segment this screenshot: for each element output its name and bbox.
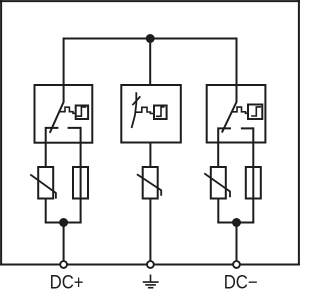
varistor left branch [38,167,53,199]
wire: DC+ branch drop from top bus into left box [63,39,65,103]
varistor middle branch [143,167,158,199]
terminal DC+ [60,261,67,268]
wire: middle box to varistor [149,142,151,167]
junction dot left branch [59,218,68,227]
varistor stroke middle branch [137,174,161,196]
disconnect tick middle [132,96,140,105]
wire: left box right terminal through fuse to junction [80,127,82,223]
switch blade right [222,102,237,133]
ground symbol [143,275,159,288]
switch blade left [50,102,64,133]
signal link stepped line right [232,107,248,113]
remote signalling contact square middle [154,106,167,120]
remote signalling contact square right [248,105,262,120]
wire: middle varistor to earth terminal [149,199,151,262]
frame right border [298,0,300,266]
svg-text:DC+: DC+ [50,272,84,293]
svg-text:DC−: DC− [224,272,258,293]
fuse right branch [246,167,261,199]
switch seat bracket left box [46,128,81,167]
wire: right box right terminal through fuse to junction [252,127,254,222]
disconnector box right [207,85,266,143]
bottom terminal bus wire [0,264,300,266]
wire: below left varistor [45,199,47,223]
top bus wire [64,38,237,39]
junction dot right branch [232,218,241,227]
switch seat bracket right box [218,128,253,166]
wire: right branch to DC- terminal [236,223,238,262]
junction bar right branch [217,222,254,224]
varistor stroke left branch [30,175,56,199]
frame top border [0,0,300,2]
fuse left branch [73,167,88,199]
wire: DC- branch drop from top bus into right box [236,39,238,103]
step symbol inside square left [77,107,87,116]
junction dot top [146,34,155,43]
varistor right branch [211,167,226,199]
frame left border [0,0,2,266]
disconnector box left [35,85,93,143]
step symbol inside square right [251,107,261,116]
disconnector box middle [121,85,181,143]
signal link stepped line left [60,107,76,113]
junction bar left branch [45,222,82,224]
signal link stepped line middle [135,107,154,113]
varistor stroke right branch [204,173,230,197]
wire: left branch to DC+ terminal [63,223,65,262]
step symbol inside square middle [156,107,165,116]
wire: below right varistor [217,199,219,223]
remote signalling contact square left [76,106,88,120]
terminal DC- [233,261,240,268]
terminal earth [147,261,154,268]
disconnect conductor middle (vertical) [132,92,137,128]
wire: middle branch drop from junction to middle box [149,39,151,87]
